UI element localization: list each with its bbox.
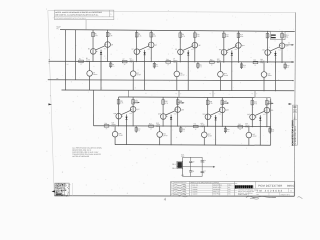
node signal bus right end arrow xyxy=(292,61,294,63)
wire stage 4 Q10 to Q11 base link xyxy=(227,47,236,51)
wire stage 1 Q1 to Q2 base link xyxy=(96,46,105,50)
svg-text:2N404: 2N404 xyxy=(224,75,228,77)
wire stamp right divider xyxy=(71,183,73,196)
svg-text:2N404: 2N404 xyxy=(86,59,90,61)
node amplifier stage 8 xyxy=(193,98,229,146)
svg-text:1K: 1K xyxy=(124,64,126,66)
svg-text:R8: R8 xyxy=(156,64,158,66)
svg-text:4029684: 4029684 xyxy=(192,187,197,189)
resistor R31 xyxy=(193,125,198,127)
wire stage 9 diode return xyxy=(259,125,261,146)
resistor R23 xyxy=(104,125,109,127)
capacitor C12 plates xyxy=(271,34,276,35)
svg-text:PNP: PNP xyxy=(130,61,133,63)
wire stage 8 diode return xyxy=(215,124,217,145)
svg-text:R20: R20 xyxy=(287,65,290,67)
svg-text:R24: R24 xyxy=(138,128,141,130)
svg-text:R10: R10 xyxy=(197,34,200,36)
wire stage 5 collector line B xyxy=(281,31,283,63)
wire stage 4 collector line B xyxy=(237,31,239,63)
svg-text:R21: R21 xyxy=(120,101,123,103)
resistor R6 xyxy=(150,33,153,38)
svg-text:+3.2: +3.2 xyxy=(129,113,132,115)
node OUTPUT arrow (row 1) xyxy=(285,44,292,46)
svg-text:PNP: PNP xyxy=(86,61,89,63)
svg-text:2N404: 2N404 xyxy=(180,75,184,77)
svg-text:Q25: Q25 xyxy=(247,114,250,116)
wire +12V feed drop xyxy=(65,30,67,90)
resistor R11 xyxy=(166,61,171,63)
node amplifier stage 9 xyxy=(238,98,274,146)
resistor R9 xyxy=(179,33,182,38)
svg-text:R31: R31 xyxy=(194,123,197,125)
wire bias drop xyxy=(75,30,77,80)
svg-text:PNP: PNP xyxy=(173,62,176,64)
svg-text:4: 4 xyxy=(210,93,211,95)
wire filter top xyxy=(183,156,203,158)
svg-text:R29: R29 xyxy=(209,101,212,103)
node centerline arrow left xyxy=(48,103,52,105)
wire stage 8 collector line A xyxy=(207,98,209,127)
resistor R18 xyxy=(281,33,284,38)
svg-text:Q10: Q10 xyxy=(219,49,222,51)
transistor Q5 xyxy=(148,42,154,48)
wire inter-row tie 2 xyxy=(212,90,214,96)
svg-text:4.7K: 4.7K xyxy=(254,103,257,105)
resistor R15 xyxy=(210,61,215,63)
wire filter bottom xyxy=(183,176,203,178)
node stamp arrow xyxy=(52,190,55,192)
svg-text:.01: .01 xyxy=(286,37,288,39)
resistor R14 xyxy=(237,33,240,38)
svg-text:2N404: 2N404 xyxy=(93,74,97,76)
svg-text:GND: GND xyxy=(181,175,184,177)
node stamp speckle xyxy=(58,184,61,186)
svg-text:Q13: Q13 xyxy=(262,49,265,51)
svg-text:D: D xyxy=(171,192,172,194)
svg-text:C14: C14 xyxy=(203,171,206,173)
resistor R28 xyxy=(180,126,182,133)
svg-text:R23: R23 xyxy=(104,123,107,125)
diode CR9 xyxy=(259,115,261,125)
wire stage 2 diode return xyxy=(144,60,146,91)
svg-text:C12: C12 xyxy=(286,35,289,37)
transistor Q23 xyxy=(219,107,225,113)
svg-text:2N404: 2N404 xyxy=(260,61,264,63)
node amplifier stage 4 xyxy=(210,31,246,91)
svg-text:C11: C11 xyxy=(192,171,195,173)
transistor Q1 xyxy=(90,49,96,55)
svg-text:Q9: Q9 xyxy=(180,73,182,75)
wire stage 2 collector line A xyxy=(136,30,138,62)
svg-text:PNP: PNP xyxy=(217,62,220,64)
svg-text:+3.2: +3.2 xyxy=(191,49,194,51)
svg-text:R14: R14 xyxy=(240,34,243,36)
svg-text:80KC: 80KC xyxy=(287,185,294,188)
transistor Q2 xyxy=(105,42,111,48)
svg-text:PCM DETECTOR: PCM DETECTOR xyxy=(258,184,282,188)
svg-text:1K: 1K xyxy=(239,129,241,131)
svg-text:2N404: 2N404 xyxy=(163,135,167,137)
node amplifier stage 1 xyxy=(79,30,115,90)
svg-text:4.7K: 4.7K xyxy=(182,36,185,38)
svg-text:470: 470 xyxy=(156,66,158,68)
resistor R19 xyxy=(253,61,258,63)
svg-text:1K: 1K xyxy=(255,65,257,67)
svg-text:Q20: Q20 xyxy=(181,109,184,111)
svg-text:1K: 1K xyxy=(150,128,152,130)
svg-text:Q2: Q2 xyxy=(111,44,113,46)
resistor R2 xyxy=(106,32,109,37)
svg-text:B: B xyxy=(171,187,172,189)
svg-text:4029685: 4029685 xyxy=(192,189,197,191)
wire +12V rail (row 2) xyxy=(119,96,271,99)
node output tap stage 6 xyxy=(133,101,138,103)
svg-text:E1: E1 xyxy=(288,42,290,44)
resistor R20 xyxy=(284,63,286,70)
wire sheet right border xyxy=(294,12,295,196)
capacitor C11 xyxy=(190,167,192,171)
wire inter-row tie 1 xyxy=(178,90,180,97)
svg-text:4.7K: 4.7K xyxy=(95,35,98,37)
wire row2 right end drop xyxy=(270,98,272,145)
node handwritten note xyxy=(246,196,276,197)
transistor Q14 xyxy=(279,43,285,49)
node amplifier stage 3 xyxy=(166,30,202,90)
svg-text:47: 47 xyxy=(203,172,205,174)
node output tap stage 7 xyxy=(178,102,183,104)
wire stage 6 diode return xyxy=(125,124,127,145)
svg-text:1K: 1K xyxy=(167,64,169,66)
svg-text:SPEC: SPEC xyxy=(228,185,232,187)
svg-text:Q6: Q6 xyxy=(137,72,139,74)
svg-text:R4: R4 xyxy=(112,64,114,66)
svg-text:470: 470 xyxy=(227,131,229,133)
wire input signal bus (row 1) xyxy=(49,60,294,63)
svg-text:2N404: 2N404 xyxy=(119,135,123,137)
svg-text:PNP: PNP xyxy=(111,126,114,128)
node amplifier stage 6 xyxy=(104,97,140,145)
svg-text:Q25: Q25 xyxy=(245,123,248,125)
node centerline arrow right xyxy=(289,103,292,105)
wire stage 1 diode return xyxy=(100,59,102,90)
svg-text:1K: 1K xyxy=(106,128,108,130)
transistor Q20 xyxy=(175,107,181,113)
svg-text:9-16: 9-16 xyxy=(183,194,186,196)
svg-text:9-15: 9-15 xyxy=(183,192,186,194)
svg-text:Q7: Q7 xyxy=(175,49,177,51)
svg-text:R6: R6 xyxy=(153,34,155,36)
svg-text:470: 470 xyxy=(138,130,140,132)
capacitor C10 xyxy=(190,157,192,161)
svg-text:PNP: PNP xyxy=(201,126,204,128)
transistor Q18 xyxy=(114,126,116,131)
transistor Q26 xyxy=(264,107,270,113)
svg-text:TP: TP xyxy=(56,78,58,80)
svg-text:MIL: MIL xyxy=(228,187,230,189)
svg-text:Q5: Q5 xyxy=(155,44,157,46)
svg-text:J1: J1 xyxy=(48,63,50,65)
node revision stamp xyxy=(55,183,69,196)
svg-text:470: 470 xyxy=(112,66,114,68)
svg-text:Q16: Q16 xyxy=(111,122,114,124)
node output tap stage 8 xyxy=(222,102,227,104)
wire sheet bottom border xyxy=(54,195,294,198)
svg-text:2.2K: 2.2K xyxy=(109,35,112,37)
svg-text:9-13: 9-13 xyxy=(183,187,186,189)
wire stage 6 collector line B xyxy=(132,97,134,126)
svg-text:4.7K: 4.7K xyxy=(165,103,168,105)
resistor R12 xyxy=(197,62,199,69)
node amplifier stage 2 xyxy=(122,30,158,90)
node margin mark left xyxy=(179,195,188,198)
capacitor C14 xyxy=(201,170,204,172)
resistor R22 xyxy=(132,99,135,104)
transistor Q13 xyxy=(265,50,271,56)
svg-text:PNP: PNP xyxy=(156,126,159,128)
svg-text:9-14: 9-14 xyxy=(183,189,186,191)
svg-text:4.7K: 4.7K xyxy=(209,103,212,105)
svg-text:P1-1: P1-1 xyxy=(172,164,175,166)
svg-text:Q19: Q19 xyxy=(156,123,159,125)
svg-text:R35: R35 xyxy=(238,124,241,126)
svg-text:Q11: Q11 xyxy=(242,45,245,47)
node revision entries xyxy=(174,184,186,186)
svg-text:s: s xyxy=(46,8,47,10)
svg-text:E5: E5 xyxy=(270,101,272,103)
svg-text:P1-2: P1-2 xyxy=(172,168,175,170)
svg-text:R36: R36 xyxy=(272,129,275,131)
svg-text:Q7: Q7 xyxy=(173,58,175,60)
svg-text:R16: R16 xyxy=(243,65,246,67)
svg-text:2N404: 2N404 xyxy=(173,60,177,62)
svg-text:2N404: 2N404 xyxy=(217,60,221,62)
svg-text:R5: R5 xyxy=(138,34,140,36)
transistor Q9 xyxy=(176,62,178,71)
diode CR4 xyxy=(231,50,233,60)
wire stage 3 collector line A xyxy=(179,30,181,62)
resistor R13 xyxy=(223,33,226,38)
wire sheet left border xyxy=(48,11,55,196)
resistor R24 xyxy=(135,126,137,133)
svg-text:REV A: REV A xyxy=(293,114,296,120)
transistor Q24 xyxy=(203,126,205,132)
resistor R33 xyxy=(251,100,254,105)
svg-text:2N404: 2N404 xyxy=(111,124,115,126)
wire -12V lower rail (row 2) xyxy=(115,144,271,147)
resistor R7 xyxy=(122,60,127,62)
svg-text:R19: R19 xyxy=(253,59,256,61)
wire row1 to row2 signal drop xyxy=(92,90,94,126)
svg-text:Q22: Q22 xyxy=(201,123,204,125)
transistor Q16 xyxy=(116,113,122,119)
transistor Q6 xyxy=(132,62,134,71)
node delay module DL1 xyxy=(271,31,286,39)
svg-text:R11: R11 xyxy=(166,59,169,61)
diode CR7 xyxy=(170,115,172,124)
svg-text:1K: 1K xyxy=(80,64,82,66)
svg-text:R32: R32 xyxy=(227,129,230,131)
svg-text:PNP: PNP xyxy=(260,62,263,64)
svg-text:STD: STD xyxy=(228,191,231,193)
svg-text:2N404: 2N404 xyxy=(137,74,141,76)
wire sheet top border xyxy=(48,10,296,12)
node amplifier stage 7 xyxy=(149,97,185,145)
wire note leader xyxy=(85,20,87,30)
wire stage 8 collector line B xyxy=(221,98,223,127)
svg-text:R12: R12 xyxy=(200,65,203,67)
svg-text:SHEET 1 OF 1: SHEET 1 OF 1 xyxy=(281,194,290,196)
svg-text:Q27: Q27 xyxy=(252,134,255,136)
resistor R4 xyxy=(110,61,112,68)
transistor Q3 xyxy=(89,61,91,70)
resistor R16 xyxy=(241,62,243,69)
wire -12V lower rail (row 1) xyxy=(62,89,295,92)
wire stage 1 collector line A xyxy=(92,30,94,62)
node general notes box xyxy=(54,10,113,20)
svg-text:TM SERIES 80KC REV A: TM SERIES 80KC REV A xyxy=(294,125,297,145)
svg-text:WIRE LIST: WIRE LIST xyxy=(213,191,220,193)
svg-text:Q26: Q26 xyxy=(270,110,273,112)
wire stage 9 collector line B xyxy=(266,98,268,127)
transistor Q22 xyxy=(205,114,211,120)
svg-text:R9: R9 xyxy=(182,34,184,36)
svg-text:4.7K: 4.7K xyxy=(138,35,141,37)
svg-text:TEST PROC: TEST PROC xyxy=(213,193,220,195)
wire stage 7 Q19 to Q20 base link xyxy=(166,111,175,115)
wire emitter return bus (row 1) xyxy=(48,79,294,82)
svg-text:2N404: 2N404 xyxy=(201,125,205,127)
node parts list table xyxy=(233,181,235,196)
svg-text:R3: R3 xyxy=(79,58,81,60)
wire stage 7 collector line B xyxy=(177,97,179,126)
node amplifier stage 5 xyxy=(253,31,289,91)
wire filter mid xyxy=(183,166,214,168)
svg-text:4: 4 xyxy=(252,93,253,95)
node company logo xyxy=(235,185,253,188)
svg-text:2N404: 2N404 xyxy=(208,135,212,137)
svg-text:PNP: PNP xyxy=(245,127,248,129)
transistor Q27 xyxy=(248,127,250,132)
wire stage 1 collector line B xyxy=(107,30,109,62)
svg-text:NOTED OTHERWISE: NOTED OTHERWISE xyxy=(72,156,90,158)
svg-text:47: 47 xyxy=(203,162,205,164)
wire stage 7 diode return xyxy=(170,124,172,145)
svg-text:Q18: Q18 xyxy=(119,133,122,135)
svg-text:R13: R13 xyxy=(226,34,229,36)
resistor R5 xyxy=(135,33,138,38)
svg-text:-2.5: -2.5 xyxy=(66,64,69,66)
diode CR8 xyxy=(215,115,217,125)
resistor R8 xyxy=(153,62,155,69)
svg-text:Q16: Q16 xyxy=(113,113,116,115)
svg-text:+3.2: +3.2 xyxy=(174,113,177,115)
svg-text:2.2K: 2.2K xyxy=(179,103,182,105)
svg-text:470: 470 xyxy=(272,131,274,133)
transistor Q10 xyxy=(221,49,227,55)
wire stage 8 Q22 to Q23 base link xyxy=(211,111,220,115)
wire stage 4 collector line A xyxy=(223,31,225,63)
svg-text:R27: R27 xyxy=(149,123,152,125)
svg-text:2N404: 2N404 xyxy=(252,136,256,138)
node revision table xyxy=(188,181,190,196)
svg-text:2N404: 2N404 xyxy=(156,124,160,126)
wire stage 7 collector line A xyxy=(162,97,164,126)
svg-text:470: 470 xyxy=(287,67,289,69)
node emitter bus right end tick xyxy=(292,80,294,82)
svg-text:Q4: Q4 xyxy=(132,48,134,50)
diode CR3 xyxy=(187,50,189,60)
wire stage 5 collector line A xyxy=(266,31,268,63)
svg-text:Q4: Q4 xyxy=(130,58,132,60)
resistor R21 xyxy=(117,99,120,104)
resistor R25 xyxy=(162,100,165,105)
wire stage 6 Q16 to Q17 base link xyxy=(121,110,130,114)
wire stage 2 collector line B xyxy=(150,30,152,62)
svg-text:Q14: Q14 xyxy=(286,45,289,47)
svg-text:1K: 1K xyxy=(195,129,197,131)
svg-text:Q1: Q1 xyxy=(88,48,90,50)
svg-text:Q23: Q23 xyxy=(226,109,229,111)
svg-text:4029686: 4029686 xyxy=(192,191,197,193)
svg-text:TP1: TP1 xyxy=(56,28,59,30)
wire stage 6 collector line A xyxy=(117,97,119,126)
svg-text:R7: R7 xyxy=(123,59,125,61)
transistor Q4 xyxy=(134,49,140,55)
resistor R26 xyxy=(176,100,179,105)
transistor Q7 xyxy=(178,49,184,55)
transistor Q25 xyxy=(250,114,256,120)
resistor R17 xyxy=(266,33,269,38)
svg-text:2.2K: 2.2K xyxy=(197,36,200,38)
transistor Q17 xyxy=(130,106,136,112)
node margin mark right xyxy=(297,197,302,199)
diode CR5 xyxy=(274,51,276,61)
wire filter right leg xyxy=(201,157,203,176)
svg-text:E4: E4 xyxy=(225,100,227,102)
resistor R30 xyxy=(221,100,224,105)
resistor R1 xyxy=(92,32,95,37)
svg-text:+3.2: +3.2 xyxy=(234,49,237,51)
node output tap stage 9 xyxy=(267,102,272,104)
wire signal bus (row 2) xyxy=(93,125,270,128)
svg-text:2N404: 2N404 xyxy=(268,75,272,77)
svg-text:R33: R33 xyxy=(254,101,257,103)
svg-text:STD: STD xyxy=(228,193,231,195)
node microfilm strip xyxy=(293,105,298,145)
svg-text:C10: C10 xyxy=(192,161,195,163)
wire stage 9 Q25 to Q26 base link xyxy=(255,111,264,115)
svg-text:DESCRIPTION: DESCRIPTION xyxy=(213,185,222,187)
svg-text:C: C xyxy=(171,189,172,191)
resistor R35 xyxy=(238,126,243,128)
resistor R10 xyxy=(194,33,197,38)
transistor Q11 xyxy=(236,43,242,49)
wire inter-row tie 3 xyxy=(254,90,256,97)
svg-text:+3.2: +3.2 xyxy=(263,114,266,116)
wire rail drop x128 xyxy=(127,90,129,97)
svg-text:4.7K: 4.7K xyxy=(226,36,229,38)
svg-text:470: 470 xyxy=(200,66,202,68)
svg-text:IN: IN xyxy=(48,59,50,61)
svg-text:C13: C13 xyxy=(203,160,206,162)
svg-text:Q21: Q21 xyxy=(163,133,166,135)
wire stage 5 diode return xyxy=(274,61,276,92)
resistor R3 xyxy=(79,60,84,62)
svg-text:9-12: 9-12 xyxy=(183,184,186,186)
svg-text:470: 470 xyxy=(182,131,184,133)
wire +12V top rail xyxy=(60,30,295,32)
